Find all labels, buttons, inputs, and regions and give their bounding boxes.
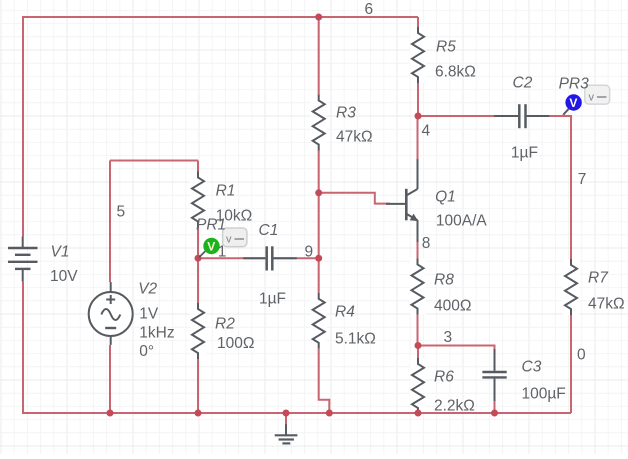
svg-text:V: V [207,240,215,254]
svg-text:1: 1 [218,244,227,261]
svg-text:R6: R6 [434,368,454,385]
svg-text:1kHz: 1kHz [139,325,174,342]
junction node dot 9 [283,410,290,417]
junction node dot 3 [315,189,322,196]
wire Q1 base jog [319,193,390,204]
svg-text:6.8kΩ: 6.8kΩ [435,63,476,80]
wire C3 bottom [494,401,496,414]
capacitor C3 100uF [482,349,506,401]
wire V2 bottom [109,345,111,414]
junction node dot 2 [415,113,422,120]
resistor R6 2.2k [410,358,426,412]
junction node dot 7 [107,410,114,417]
probe PR1 [199,228,247,258]
svg-text:5.1kΩ: 5.1kΩ [335,331,376,348]
svg-text:R4: R4 [335,303,355,320]
wire Q1 collector net 4 [417,116,419,160]
resistor R5 6.8k [410,27,426,83]
capacitor C1 1uF [243,246,297,270]
svg-text:1µF: 1µF [259,290,286,307]
svg-text:10V: 10V [50,268,78,285]
junction node dot 12 [491,410,498,417]
svg-text:C1: C1 [259,222,279,239]
svg-text:PR1: PR1 [196,217,226,234]
svg-text:v: v [589,91,595,103]
junction node dot 10 [326,410,333,417]
svg-text:2.2kΩ: 2.2kΩ [434,398,475,415]
svg-text:7: 7 [578,171,587,188]
svg-text:0: 0 [577,347,586,364]
svg-text:PR3: PR3 [559,75,590,92]
junction node dot 6 [415,342,422,349]
junction node dot 1 [315,14,322,21]
svg-text:100A/A: 100A/A [436,213,488,230]
wire net 5 top [110,160,198,162]
svg-text:C2: C2 [513,74,533,91]
svg-text:V: V [569,96,577,110]
svg-text:R3: R3 [336,104,356,121]
junction node dot 4 [195,255,202,262]
battery V1 [8,237,38,282]
wire net 1 row C1 [198,257,265,259]
svg-text:1µF: 1µF [511,145,538,162]
wire R4 branch [319,258,330,413]
wire V2 top [109,161,111,283]
svg-text:100µF: 100µF [522,385,566,402]
wire mid column R3/R4 [318,17,320,258]
svg-text:R5: R5 [436,38,456,55]
wire top net 6 [23,16,418,18]
probe PR3 [564,85,610,114]
AC source V2 [89,282,133,345]
svg-text:R8: R8 [434,271,454,288]
transistor Q1 [386,159,418,242]
wire R5 branch [417,17,419,116]
svg-text:R1: R1 [216,183,236,200]
wire net 4 output row [418,115,518,117]
svg-text:R2: R2 [215,315,235,332]
svg-text:100Ω: 100Ω [217,335,254,352]
wire R6 branch [417,346,419,414]
svg-text:0°: 0° [139,343,154,360]
svg-text:9: 9 [305,243,314,260]
wire left V1 bottom [22,282,24,414]
wire ground stem [285,413,287,426]
capacitor C2 1uF [494,104,549,128]
resistor R7 47k [563,259,579,315]
svg-text:8: 8 [422,235,431,252]
svg-text:4: 4 [422,122,431,139]
wire left V1 top [22,16,24,237]
svg-text:5: 5 [117,203,126,220]
svg-text:47kΩ: 47kΩ [588,295,625,312]
wire net 3 row [418,346,495,351]
svg-text:V1: V1 [51,244,70,261]
svg-text:v: v [226,233,232,245]
resistor R3 47k [311,95,327,151]
svg-text:400Ω: 400Ω [434,297,471,314]
resistor R2 100 [190,303,206,359]
svg-text:3: 3 [444,329,453,346]
svg-text:C3: C3 [522,358,542,375]
junction node dot 11 [415,410,422,417]
wire net 4 row right of C2 [527,115,572,117]
resistor R8 400 [410,259,426,315]
wire bottom ground net [22,412,571,414]
resistor R4 5.1k [311,293,327,349]
junction node dot 5 [315,255,322,262]
junction node dot 8 [195,410,202,417]
svg-text:V2: V2 [138,280,157,297]
wire PR3 stub [563,109,569,116]
svg-text:47kΩ: 47kΩ [336,128,373,145]
svg-text:Q1: Q1 [435,189,456,206]
svg-text:6: 6 [365,1,374,18]
wire net 9 row C1 right [274,257,319,259]
wire R2 branch [197,258,199,414]
ground [275,424,298,443]
wire R1 branch [197,161,199,259]
wire right net 7/0 [570,116,572,413]
svg-text:1V: 1V [139,306,159,323]
resistor R1 10k [190,172,206,228]
wire Q1 emitter net 8 [417,220,419,345]
svg-text:R7: R7 [588,269,609,286]
